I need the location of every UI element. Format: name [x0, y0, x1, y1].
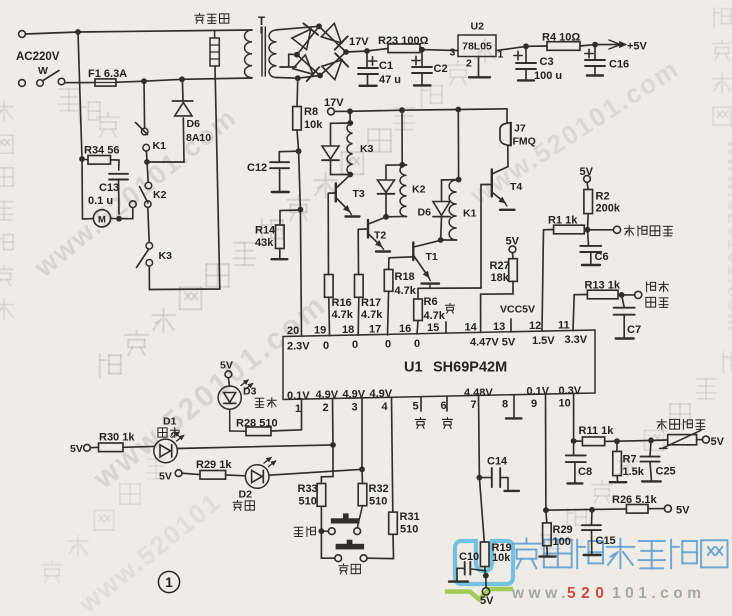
ground R29: [546, 546, 548, 556]
terminal 5V below R19: [485, 576, 487, 588]
svg-text:D6: D6: [187, 118, 201, 130]
node K1 bottom junction: [144, 159, 150, 165]
watermark hanzi fragment top-left corner: [59, 89, 80, 111]
relay contact K3: [146, 243, 153, 250]
svg-text:VCC5V: VCC5V: [500, 304, 535, 316]
svg-text:520: 520: [567, 585, 609, 602]
svg-text:4.9V: 4.9V: [370, 388, 393, 400]
svg-text:18k: 18k: [491, 272, 510, 284]
svg-text:R16: R16: [332, 297, 352, 309]
node C12 junction: [296, 148, 302, 154]
svg-text:101.com: 101.com: [612, 585, 706, 602]
node top-left junction: [75, 29, 81, 35]
node R29 junction: [543, 507, 549, 513]
svg-text:4.9V: 4.9V: [316, 389, 339, 401]
capacitor C14: [479, 477, 491, 479]
pushbutton quandou: [347, 540, 353, 546]
resistor R29 1k (LED): [182, 473, 200, 474]
capacitor C8: [573, 441, 575, 455]
svg-text:0.3V: 0.3V: [559, 385, 582, 397]
resistor R33 510: [317, 484, 326, 507]
terminal 5V sensor: [697, 439, 703, 441]
svg-text:4.7k: 4.7k: [361, 309, 383, 321]
transformer T primary winding: [245, 30, 252, 78]
svg-text:16: 16: [399, 323, 411, 335]
svg-text:4: 4: [382, 401, 389, 413]
svg-text:7: 7: [471, 399, 477, 411]
svg-text:R6: R6: [424, 296, 438, 308]
svg-text:C13: C13: [99, 182, 119, 194]
svg-text:W: W: [38, 65, 48, 77]
svg-text:20: 20: [287, 325, 299, 337]
svg-text:11: 11: [558, 320, 570, 332]
svg-text:K3: K3: [360, 143, 374, 155]
svg-text:5V: 5V: [711, 436, 725, 448]
svg-text:4.47V 5V: 4.47V 5V: [470, 336, 516, 348]
ground T4 emitter: [500, 209, 515, 211]
resistor R31 510: [389, 512, 398, 534]
transistor T1: [414, 240, 441, 247]
wire pin10 riser: [573, 394, 575, 441]
wire T2 base to R17: [357, 229, 359, 274]
svg-text:C3: C3: [540, 56, 554, 68]
svg-text:C14: C14: [487, 456, 508, 468]
relay contact K2: [145, 182, 152, 189]
pin 5 and 6 stubs with kong labels: [420, 397, 422, 411]
terminal 5V D1: [84, 444, 91, 451]
svg-text:D6: D6: [418, 207, 432, 219]
svg-text:13: 13: [493, 321, 505, 333]
svg-text:www.520101.com: www.520101.com: [723, 139, 732, 333]
ground T2 emitter: [376, 250, 390, 252]
heater element: [210, 38, 219, 66]
wire switch to fuse: [65, 82, 95, 84]
svg-text:0: 0: [352, 339, 358, 351]
svg-text:3: 3: [352, 402, 358, 414]
svg-text:R4 10Ω: R4 10Ω: [542, 32, 580, 44]
node C1 tap: [364, 48, 370, 54]
bridge left node stub: [289, 54, 297, 66]
svg-text:R2: R2: [596, 191, 610, 203]
transistor T4: [491, 170, 493, 197]
label moisture detect (hanzi): [657, 419, 667, 429]
svg-text:AC220V: AC220V: [16, 51, 60, 63]
wire left vertical to motor branch: [78, 32, 94, 219]
node T2 collector / K2 bottom: [383, 214, 389, 220]
svg-text:+5V: +5V: [627, 41, 648, 53]
wire U2 to R4: [496, 46, 526, 50]
svg-text:D3: D3: [243, 386, 257, 398]
svg-text:R33: R33: [298, 483, 318, 495]
LED D2 quandou: [226, 474, 246, 477]
svg-text:K3: K3: [159, 250, 173, 262]
svg-text:D2: D2: [239, 489, 253, 501]
wire quandou right to R31: [367, 534, 394, 558]
wire secondary top to bridge: [277, 26, 320, 30]
wire junction row to R26: [546, 509, 627, 510]
svg-text:K2: K2: [412, 184, 426, 196]
resistor R32 510: [361, 469, 364, 483]
svg-text:J7: J7: [514, 123, 526, 135]
svg-text:0.1V: 0.1V: [287, 390, 310, 402]
svg-text:17V: 17V: [324, 97, 344, 109]
svg-text:C10: C10: [459, 551, 479, 563]
node R13/C7: [619, 292, 625, 298]
pin 8 ground: [513, 395, 515, 417]
transistor T2: [368, 217, 386, 224]
node pin3 junction: [359, 466, 365, 472]
label water-level probe (hanzi): [624, 226, 634, 236]
svg-text:C2: C2: [434, 63, 448, 75]
svg-text:R26 5.1k: R26 5.1k: [612, 494, 658, 506]
bridge rectifier wires: [297, 26, 346, 75]
wire pin2 riser: [332, 399, 335, 445]
svg-text:F1 6.3A: F1 6.3A: [88, 68, 127, 80]
terminal 5V R2: [584, 176, 591, 183]
terminal water level probe: [613, 226, 620, 233]
wire pin7 riser: [478, 396, 481, 478]
svg-text:3.3V: 3.3V: [565, 334, 588, 346]
wire T1 emitter to R6 and T4 base: [418, 287, 481, 289]
svg-text:2: 2: [323, 402, 329, 414]
wire fuse to transformer primary: [116, 78, 252, 82]
resistor R23 100ohm: [367, 49, 388, 52]
svg-text:1: 1: [165, 575, 173, 590]
IC U1 SH69P42M body: [283, 330, 595, 400]
resistor R14 43k: [280, 210, 300, 225]
bridge node right +17V: [343, 49, 349, 55]
wire button row down to quandou: [320, 531, 322, 558]
resistor R4 10ohm: [526, 45, 547, 47]
node R14 junction: [298, 207, 304, 213]
svg-text:T2: T2: [374, 230, 386, 242]
svg-text:15: 15: [427, 322, 439, 334]
label heater (hanzi): [195, 13, 204, 23]
node C25 top: [648, 438, 654, 444]
svg-text:1.5V: 1.5V: [532, 335, 555, 347]
svg-text:T: T: [258, 16, 265, 28]
wire D2 to pin3: [269, 469, 362, 475]
wire pin1 to R28: [271, 399, 302, 431]
resistor R11 1k: [574, 440, 583, 442]
svg-text:T4: T4: [510, 181, 522, 193]
svg-text:C15: C15: [596, 535, 616, 547]
node R1/R2/C6: [585, 227, 591, 233]
svg-text:5V: 5V: [70, 443, 83, 455]
svg-text:U2: U2: [471, 21, 485, 33]
T1 emitter bar: [422, 282, 440, 284]
svg-text:2.3V: 2.3V: [287, 341, 310, 353]
svg-text:14: 14: [465, 322, 478, 334]
watermark hanzi vertical column left edge: [0, 101, 13, 121]
resistor R29 100: [545, 510, 548, 523]
svg-text:3: 3: [450, 47, 456, 59]
site logo blue rounded square: [455, 541, 513, 584]
resistor R16 4.7k: [325, 275, 334, 298]
capacitor C12: [279, 151, 298, 162]
transformer T core: [261, 27, 263, 76]
svg-text:19: 19: [314, 325, 326, 337]
svg-text:200k: 200k: [596, 203, 621, 215]
wire K1 to junction: [145, 151, 148, 162]
svg-text:C1: C1: [379, 60, 393, 72]
diode D6 8A10: [175, 103, 192, 116]
svg-text:5V: 5V: [159, 471, 172, 483]
wire T3 base to R16: [327, 193, 329, 274]
svg-text:43k: 43k: [255, 237, 274, 249]
relay K1 coil and diode D6: [457, 110, 459, 180]
capacitor C10: [464, 562, 466, 575]
wire to water level probe terminal: [588, 229, 614, 231]
site logo green swoosh: [445, 589, 513, 600]
capacitor C1 47u: [366, 51, 368, 68]
svg-text:R32: R32: [369, 483, 389, 495]
node C15 tap: [589, 507, 595, 513]
buzzer J7 FMQ: [506, 109, 508, 123]
label overflow probe (hanzi): [647, 282, 656, 292]
svg-text:18: 18: [342, 324, 354, 336]
svg-text:C6: C6: [595, 251, 609, 263]
svg-text:1: 1: [295, 403, 301, 415]
svg-text:T1: T1: [426, 251, 438, 263]
svg-text:4.7k: 4.7k: [332, 309, 354, 321]
motor M: [93, 210, 110, 227]
svg-text:K1: K1: [153, 140, 167, 152]
svg-text:5V: 5V: [676, 505, 690, 517]
svg-text:C16: C16: [609, 59, 629, 71]
node T1 collector / K1 bottom: [438, 237, 444, 243]
fuse F1 6.3A: [95, 79, 116, 86]
svg-text:K1: K1: [463, 208, 477, 220]
capacitor C16: [594, 45, 596, 60]
wire fuse tap down to K1: [143, 81, 146, 128]
svg-text:R8: R8: [304, 106, 318, 118]
resistor R18 4.7k: [384, 270, 393, 292]
watermark hanzi vertical column right edge top: [714, 8, 731, 27]
terminal 17V: [328, 108, 335, 115]
wire to C25 and sensor: [617, 440, 648, 443]
node D6 tap: [179, 76, 185, 82]
svg-text:K2: K2: [153, 189, 167, 201]
svg-text:R18: R18: [395, 271, 415, 283]
resistor R28 510: [246, 427, 271, 436]
svg-text:FMQ: FMQ: [513, 136, 536, 148]
capacitor C15: [591, 510, 594, 525]
label kong (NC) pin15: [445, 303, 454, 313]
label quandou button (hanzi): [339, 564, 348, 574]
svg-text:R11 1k: R11 1k: [579, 425, 615, 437]
svg-text:47 u: 47 u: [379, 74, 401, 86]
bridge node top: [316, 23, 322, 29]
wire R27 to pin14: [481, 281, 513, 332]
wire R33 to button row: [320, 506, 322, 531]
wire 17V rail: [335, 109, 508, 112]
svg-text:510: 510: [369, 496, 387, 508]
capacitor C3 100u: [525, 46, 527, 62]
node R11 left: [571, 438, 577, 444]
switch W: [37, 80, 44, 87]
svg-text:510: 510: [400, 524, 418, 536]
resistor R34 56: [88, 156, 111, 165]
transistor T3: [336, 175, 350, 188]
wire K3 bottom loop to heater: [149, 66, 220, 289]
bridge diode bottom-right: [322, 60, 342, 80]
label wugu button (hanzi): [294, 527, 303, 536]
wire R34 to C13: [111, 160, 120, 170]
terminal AC line bottom: [19, 80, 26, 87]
moisture sensor element: [668, 435, 697, 445]
svg-text:6: 6: [441, 400, 447, 412]
svg-text:12: 12: [529, 320, 541, 332]
pushbutton wugu: [343, 513, 349, 519]
capacitor C7: [622, 295, 625, 307]
svg-text:10: 10: [559, 397, 571, 409]
svg-text:C8: C8: [578, 466, 592, 478]
svg-text:R34 56: R34 56: [84, 145, 119, 157]
node K-chain tap: [141, 78, 147, 84]
wire C2 to U2: [422, 50, 458, 51]
terminal 5V R26: [648, 508, 664, 510]
svg-text:T3: T3: [353, 188, 365, 200]
wire J7 to T4 collector: [507, 146, 509, 167]
watermark hanzi diagonal bottom-right: [540, 535, 559, 555]
svg-text:0: 0: [385, 339, 391, 351]
node wugu button left: [319, 528, 325, 534]
capacitor C2: [421, 50, 423, 67]
node C3 tap: [523, 43, 529, 49]
svg-text:www.: www.: [511, 585, 570, 602]
svg-text:R29 1k: R29 1k: [196, 459, 232, 471]
svg-text:U1: U1: [404, 360, 423, 376]
wire pin2 branch to R33: [321, 477, 333, 484]
svg-text:4.7k: 4.7k: [424, 310, 446, 322]
wire to overflow probe terminal: [622, 294, 635, 296]
svg-text:R30 1k: R30 1k: [99, 432, 135, 444]
svg-text:9: 9: [531, 398, 537, 410]
svg-text:C7: C7: [627, 324, 641, 336]
ground T3 emitter: [346, 215, 360, 217]
bridge diode top-left: [292, 29, 311, 49]
wire K1 to K2: [147, 162, 148, 182]
svg-text:5: 5: [413, 400, 419, 412]
watermark hanzi diagonal band left-to-topcenter: [100, 354, 121, 377]
ground R7: [616, 476, 618, 481]
svg-text:510: 510: [299, 496, 317, 508]
relay K3 coil and damper diode: [349, 111, 351, 123]
transformer T secondary winding: [269, 30, 276, 78]
wire K2 to K3: [148, 208, 149, 243]
svg-text:M: M: [98, 215, 106, 226]
terminal 5V R27: [509, 246, 516, 253]
label power (hanzi): [255, 398, 264, 407]
resistor R26 5.1k: [626, 505, 648, 514]
svg-text:1.5k: 1.5k: [623, 466, 645, 478]
wire pin20 riser: [299, 151, 301, 209]
svg-text:17: 17: [369, 323, 381, 335]
wire bridge output to R23: [346, 51, 367, 52]
node R34 left: [79, 156, 85, 162]
capacitor C6: [588, 230, 589, 246]
resistor R19 10k: [480, 542, 489, 567]
svg-text:SH69P42M: SH69P42M: [433, 360, 507, 376]
relay K2 coil and damper diode: [401, 110, 403, 165]
svg-text:8: 8: [502, 399, 508, 411]
node C16 tap: [592, 42, 598, 48]
svg-text:R14: R14: [255, 225, 276, 237]
svg-text:R23 100Ω: R23 100Ω: [378, 35, 429, 47]
svg-text:C25: C25: [656, 466, 676, 478]
svg-text:10k: 10k: [492, 552, 511, 564]
svg-text:R29: R29: [553, 524, 573, 536]
svg-text:100: 100: [553, 536, 571, 548]
svg-text:5V: 5V: [220, 360, 233, 372]
node C2 tap: [419, 47, 425, 53]
node K1 relay tap: [455, 107, 461, 113]
bridge node bottom: [317, 73, 323, 79]
resistor R2 200k: [587, 182, 588, 189]
wire motor junction to K2 contact: [119, 208, 133, 219]
node R19 bottom: [485, 567, 486, 576]
svg-text:R17: R17: [361, 297, 381, 309]
wire pin4 riser to R31: [392, 397, 393, 512]
watermark hanzi diagonal band top-center tail: [394, 108, 415, 130]
wire D1 to pin2: [177, 445, 333, 449]
resistor R7 1.5k: [616, 441, 618, 451]
figure number 1 circled: [158, 571, 179, 592]
arrow +5V output: [595, 44, 620, 46]
watermark hanzi diagonal bottom-left: [42, 561, 62, 583]
svg-text:5V: 5V: [480, 595, 494, 607]
node pin2 junction: [330, 442, 336, 448]
wire K1 junction to D6 anode: [147, 118, 184, 162]
terminal 5V D2: [175, 470, 182, 477]
terminal AC line top: [19, 31, 26, 38]
wire C14 junction to R19: [479, 478, 484, 542]
svg-text:10k: 10k: [304, 119, 323, 131]
node R8 tap on secondary return: [295, 75, 301, 81]
svg-text:C12: C12: [247, 162, 267, 174]
wire pin3 riser: [361, 398, 363, 469]
svg-text:2: 2: [466, 58, 472, 70]
wire pin9 riser: [545, 394, 547, 510]
svg-text:0.1 u: 0.1 u: [88, 195, 113, 207]
svg-text:0: 0: [323, 340, 329, 352]
svg-text:4.7k: 4.7k: [395, 285, 417, 297]
node C14 junction: [477, 475, 483, 481]
node K3 relay tap: [347, 108, 353, 114]
node K2 relay tap: [399, 107, 405, 113]
svg-text:17V: 17V: [349, 36, 369, 48]
svg-text:R27: R27: [490, 260, 510, 272]
pin 13 stub: [510, 319, 512, 332]
svg-text:R7: R7: [623, 454, 637, 466]
svg-text:R31: R31: [400, 511, 420, 523]
resistor R30 1k: [90, 446, 98, 448]
node R7 top: [614, 438, 620, 444]
site name blue calligraphy hanzi: [513, 538, 541, 568]
bridge diode bottom-left: [293, 55, 313, 74]
terminal overflow probe: [635, 291, 642, 298]
wire secondary bottom to bridge: [277, 76, 321, 79]
capacitor C13 0.1u: [109, 173, 128, 175]
capacitor C25: [650, 440, 651, 456]
bridge diode top-right: [321, 23, 341, 43]
resistor R6 4.7k: [417, 288, 419, 299]
svg-text:D1: D1: [163, 416, 177, 428]
resistor R27 18k: [512, 253, 515, 259]
LED D1 wugu: [123, 445, 154, 448]
wire T4 base riser: [480, 185, 482, 289]
